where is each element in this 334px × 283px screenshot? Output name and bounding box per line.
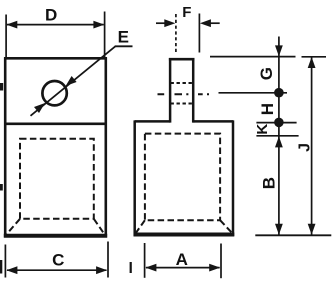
front view dashed corner diagonal left — [7, 219, 21, 235]
front view divider line — [5, 123, 106, 126]
dimension F arrowheads (pointing inward) — [164, 19, 175, 27]
chain dot at hole center datum — [274, 88, 284, 98]
side view body outline — [134, 120, 235, 236]
hole diameter arrowhead upper — [66, 76, 77, 86]
chain arrow down at top datum — [275, 45, 283, 56]
dimension B top arrow (up) — [275, 136, 283, 147]
dimension B bottom arrow (down) — [275, 224, 283, 235]
hidden hole line upper — [171, 82, 194, 84]
dimension C line — [7, 269, 107, 271]
hole circle — [42, 81, 66, 105]
dimension F dashed extension line — [175, 14, 177, 54]
dimension F line right segment — [210, 22, 220, 24]
dimension A extension lines — [144, 243, 146, 278]
hidden hole line lower — [171, 103, 194, 105]
dimension D extension lines — [5, 15, 7, 58]
chain dot at K datum — [274, 118, 284, 128]
dimension J vertical line — [311, 57, 313, 234]
svg-text:E: E — [118, 28, 129, 47]
reference line K lower / B datum — [256, 135, 298, 137]
reference line K upper — [256, 122, 296, 124]
chain dimension vertical line — [278, 37, 280, 235]
svg-text:K: K — [254, 124, 271, 135]
bottom datum line — [255, 234, 331, 236]
svg-text:J: J — [297, 143, 314, 152]
hole diameter arrowhead lower — [34, 103, 45, 113]
hole leader line E (diagonal through circle) — [31, 46, 116, 116]
dimension J top arrow (up) — [308, 57, 316, 68]
dimension F line left segment — [156, 22, 165, 24]
dimension D arrowheads — [6, 21, 17, 29]
scan artifact marks at left border — [0, 83, 132, 274]
E label underline — [115, 45, 133, 47]
dimension C arrowheads — [6, 266, 17, 274]
reference line from stem top (G datum) — [210, 56, 326, 58]
side view stem — [169, 58, 195, 123]
dimension J bottom arrow (down) — [308, 224, 316, 235]
svg-text:G: G — [257, 67, 276, 80]
svg-text:C: C — [52, 250, 64, 269]
dimension A arrowheads — [145, 264, 156, 272]
dimension A line — [146, 267, 220, 269]
side view hidden inner rectangle (dashed) — [145, 134, 220, 221]
svg-text:F: F — [182, 4, 191, 21]
hole centerline (dash-dot) — [158, 93, 210, 95]
dimension D line — [7, 24, 104, 26]
front view outer outline — [4, 57, 107, 237]
front view hidden inner rectangle (dashed) — [20, 139, 94, 219]
side view dashed corner diagonal right — [220, 220, 232, 233]
side view dashed corner diagonal left — [136, 220, 145, 233]
hole centerline extended right (H datum) — [219, 92, 288, 94]
front view dashed corner diagonal right — [94, 219, 105, 235]
svg-text:B: B — [259, 177, 278, 189]
svg-text:H: H — [258, 103, 277, 115]
dimension F solid extension line — [198, 14, 200, 53]
svg-text:A: A — [176, 250, 188, 269]
svg-text:D: D — [45, 6, 57, 25]
dimension C extension lines — [4, 245, 6, 278]
